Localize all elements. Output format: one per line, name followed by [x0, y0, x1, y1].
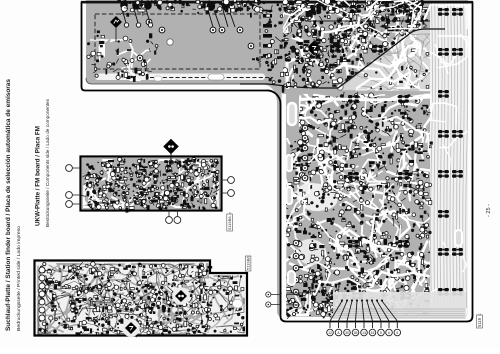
component cluster: TLS top strip — [117, 0, 272, 18]
FM board component cluster — [80, 157, 219, 213]
trace band above bottom edge — [330, 309, 465, 318]
mounting slot 3 — [288, 103, 296, 125]
svg-text:5119B/L: 5119B/L — [246, 255, 251, 270]
diagonal board-area boundary trace — [240, 29, 445, 88]
IF transformer footprints — [310, 5, 463, 300]
light zone above bottom edge — [333, 292, 466, 319]
bottom connector leads — [330, 299, 397, 328]
part number tag 5119 c — [477, 314, 483, 328]
copper trace channels TLS — [91, 40, 150, 80]
FM board pin 3 — [66, 201, 73, 208]
bottom connector circled pins — [327, 329, 401, 336]
alignment diamond D1 (TLS) — [110, 16, 122, 28]
component cluster: TLS inside dashed — [121, 40, 276, 82]
mounting slot small — [154, 76, 162, 81]
svg-text:5: 5 — [380, 331, 382, 335]
mounting slot 5 — [288, 271, 295, 285]
screw hole 3 — [337, 84, 343, 90]
svg-text:5119 c: 5119 c — [477, 314, 482, 327]
white margin inside left frame — [282, 100, 287, 318]
component cluster: mid board — [283, 92, 433, 318]
FM board pin 5 — [228, 190, 235, 197]
screw hole 4 — [293, 127, 299, 133]
FM board channels — [84, 160, 218, 207]
main board outline frame — [82, 3, 473, 322]
alignment diamond D2 (main) — [303, 37, 325, 59]
svg-text:Suchlauf-Platte / Station find: Suchlauf-Platte / Station finder board /… — [5, 78, 12, 331]
FM board pin 7 — [174, 217, 181, 224]
station finder board outline frame — [35, 261, 248, 336]
FM board outline frame — [81, 157, 222, 211]
white routing over mid board — [285, 95, 429, 312]
station finder part tag — [245, 255, 251, 271]
copper trace channels mid board — [283, 95, 432, 315]
mounting slot 1 — [100, 38, 105, 58]
svg-text:6: 6 — [388, 331, 390, 335]
svg-text:30: 30 — [345, 331, 349, 335]
station finder component cluster — [38, 262, 245, 338]
white channel band TLS bottom — [95, 74, 265, 81]
TLS transistors Q — [207, 1, 235, 27]
station finder board grey traces — [38, 264, 244, 334]
svg-text:12: 12 — [328, 331, 332, 335]
TLS resistor stack right — [263, 14, 272, 58]
left edge cleanup & pills redraw — [282, 94, 287, 318]
screw hole 2 — [377, 15, 383, 21]
station finder board thin traces — [38, 264, 244, 334]
mounting slot 4 — [455, 230, 462, 246]
TLS top transistor group — [120, 0, 153, 27]
svg-text:UKW-Platte / FM board / Placa: UKW-Platte / FM board / Placa FM — [35, 126, 42, 226]
alignment diamond D5 — [122, 319, 140, 337]
svg-text:Bedruckungsseite / Printed sid: Bedruckungsseite / Printed side / Lado i… — [16, 226, 21, 331]
big white patches mid board — [296, 183, 337, 211]
component cluster: TLS left — [87, 31, 153, 82]
FM board pin 2 — [66, 192, 73, 199]
svg-text:35: 35 — [354, 331, 358, 335]
leader line into board — [281, 292, 305, 294]
svg-text:- 25 -: - 25 - — [486, 204, 492, 217]
station finder pin row — [39, 267, 45, 321]
pin D callout — [266, 302, 271, 307]
screw hole 1 — [167, 39, 173, 45]
copper trace channels top band — [287, 2, 420, 88]
horizontal white channel under diagonal — [284, 97, 430, 101]
TLS grey edge line — [86, 78, 262, 84]
component cluster: top band extra dark pass — [283, 0, 432, 94]
svg-text:5119B/L c: 5119B/L c — [227, 212, 232, 230]
dashed line extension — [308, 20, 430, 22]
alignment diamond D4 — [172, 287, 190, 305]
white routing over top strip — [283, 0, 430, 32]
FM board pin 6 — [166, 217, 173, 224]
component cluster: bottom edge dense — [283, 287, 345, 319]
FM board grey area — [82, 158, 220, 209]
pad column left edge of main board — [293, 125, 308, 308]
FM board part tag 5119B/L c — [227, 212, 233, 231]
component cluster: mid board extra pass — [282, 96, 429, 314]
top border line — [81, 1, 473, 3]
mounting slot 2 — [208, 74, 224, 80]
FM board pin 1 — [66, 165, 73, 172]
screw hole 5 — [157, 293, 163, 299]
station finder board base — [36, 262, 246, 334]
component cluster: top band dense — [283, 0, 429, 91]
trace bus strip right edge — [430, 2, 468, 315]
pin B callout — [266, 292, 271, 297]
svg-text:13: 13 — [362, 331, 366, 335]
main board grey copper area — [86, 0, 468, 317]
left edge pills — [287, 155, 293, 171]
FM board pin 4 — [228, 177, 235, 184]
dashed tuner unit outline — [95, 14, 260, 69]
TLS pads — [137, 19, 254, 61]
component cluster: right of TLS — [265, 4, 287, 94]
svg-text:15: 15 — [371, 331, 375, 335]
svg-text:Bestückungsseite / Components: Bestückungsseite / Components side / Lad… — [45, 98, 50, 227]
light trace area under diagonal — [338, 29, 468, 92]
dashed shield line — [150, 77, 273, 79]
alignment diamond D3 (FM board) — [163, 139, 179, 155]
svg-text:5: 5 — [396, 331, 398, 335]
slot in bottom board — [233, 300, 243, 309]
